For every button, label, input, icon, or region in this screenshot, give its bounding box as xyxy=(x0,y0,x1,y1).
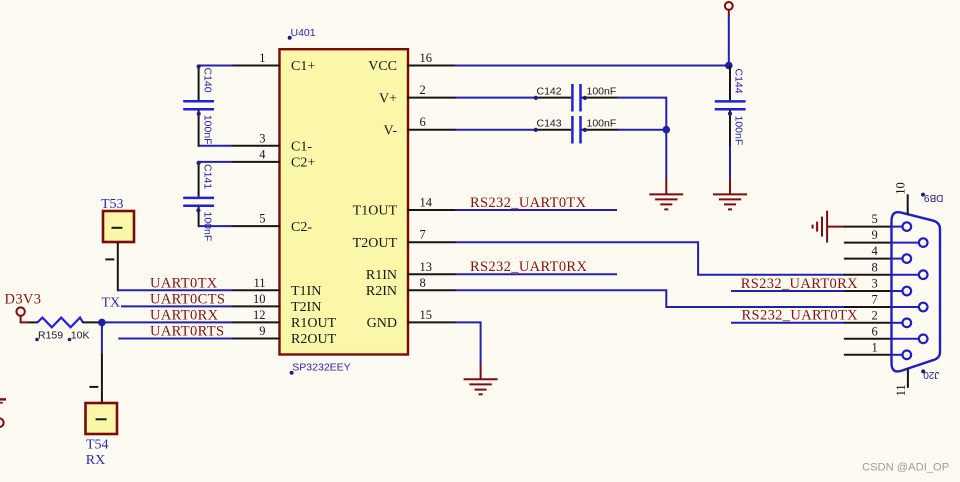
svg-text:C142: C142 xyxy=(537,86,562,98)
svg-text:1: 1 xyxy=(259,51,265,65)
pin 3 stub xyxy=(232,145,281,147)
net label UART0RTS xyxy=(150,324,224,340)
pin 8 stub xyxy=(407,289,456,291)
testpoint T53 xyxy=(101,197,134,242)
svg-text:6: 6 xyxy=(420,115,426,129)
svg-text:V+: V+ xyxy=(379,91,397,106)
wire R2IN to DB9 pin7 xyxy=(455,290,845,307)
T54 pin wire xyxy=(89,354,102,403)
svg-text:DB9: DB9 xyxy=(924,192,944,203)
svg-text:C1-: C1- xyxy=(291,140,312,155)
svg-text:5: 5 xyxy=(872,212,878,226)
capacitor C140 xyxy=(183,64,214,146)
svg-text:C2-: C2- xyxy=(291,220,312,235)
net label RS232_UART0TX at T1OUT xyxy=(470,195,587,211)
capacitor C144 xyxy=(715,66,746,148)
wire C143 to junction xyxy=(617,129,666,131)
svg-text:R159: R159 xyxy=(38,330,63,342)
net label UART0CTS xyxy=(150,291,225,307)
svg-text:100nF: 100nF xyxy=(733,116,745,146)
wire T1OUT pin14 xyxy=(455,209,617,211)
svg-text:T1IN: T1IN xyxy=(291,284,321,299)
svg-text:4: 4 xyxy=(872,244,879,258)
earth ground at DB9 pin5 xyxy=(813,211,845,243)
svg-text:R1IN: R1IN xyxy=(366,268,397,283)
svg-text:VCC: VCC xyxy=(368,59,397,74)
svg-text:V-: V- xyxy=(384,123,398,138)
svg-text:5: 5 xyxy=(259,212,265,226)
testpoint T54 xyxy=(86,403,118,468)
svg-text:100nF: 100nF xyxy=(587,86,617,98)
svg-text:12: 12 xyxy=(253,308,266,322)
wire T2OUT to DB9 pin8 xyxy=(455,242,845,275)
label TX xyxy=(102,296,121,311)
svg-text:GND: GND xyxy=(367,316,397,331)
svg-text:R1OUT: R1OUT xyxy=(291,316,337,331)
svg-text:11: 11 xyxy=(894,384,908,396)
watermark xyxy=(862,461,949,473)
svg-text:14: 14 xyxy=(420,196,433,210)
svg-text:UART0RX: UART0RX xyxy=(150,307,219,323)
svg-text:C2+: C2+ xyxy=(291,156,315,171)
pin 16 stub xyxy=(407,65,456,67)
svg-text:100nF: 100nF xyxy=(201,115,213,145)
pin numbers right xyxy=(420,51,433,322)
DB9 pin numbers xyxy=(872,212,879,354)
svg-text:J20: J20 xyxy=(923,369,940,380)
wire R2OUT pin9 xyxy=(118,338,232,340)
svg-text:UART0CTS: UART0CTS xyxy=(150,291,225,307)
wire R1IN pin13 xyxy=(455,273,617,275)
svg-text:7: 7 xyxy=(872,293,878,307)
svg-text:7: 7 xyxy=(420,228,426,242)
svg-text:C1+: C1+ xyxy=(291,59,315,74)
svg-text:T54: T54 xyxy=(86,438,109,453)
wire T2IN pin10 xyxy=(121,305,233,307)
pin names left xyxy=(291,59,337,347)
net label UART0RX xyxy=(150,307,219,323)
svg-text:9: 9 xyxy=(872,228,878,242)
svg-text:RS232_UART0TX: RS232_UART0TX xyxy=(742,308,859,324)
pin 14 stub xyxy=(407,209,456,211)
svg-text:C141: C141 xyxy=(201,164,213,189)
svg-text:UART0TX: UART0TX xyxy=(150,275,218,291)
svg-text:10K: 10K xyxy=(71,330,90,342)
svg-text:8: 8 xyxy=(872,260,878,274)
wire VCC pin16 to C144 junction xyxy=(455,65,729,67)
svg-text:R2IN: R2IN xyxy=(366,284,397,299)
net label RS232_UART0RX at R1IN xyxy=(470,259,587,275)
junction C142 C143 xyxy=(663,126,671,134)
svg-text:13: 13 xyxy=(420,260,433,274)
svg-text:2: 2 xyxy=(872,308,878,322)
DB9 pin circles right column xyxy=(892,238,928,343)
value DB9 mirrored xyxy=(921,192,943,203)
svg-text:10: 10 xyxy=(894,182,908,195)
wire C142 to corner down xyxy=(617,98,666,129)
svg-text:RS232_UART0RX: RS232_UART0RX xyxy=(470,259,587,275)
pin 6 stub xyxy=(407,129,456,131)
pin 2 stub xyxy=(407,97,456,99)
ground under C142 C143 xyxy=(649,179,683,210)
DB9 pin circles left column xyxy=(892,222,911,359)
ground at GND pin xyxy=(464,363,498,394)
pin 13 stub xyxy=(407,273,456,275)
DB9 pin stubs black xyxy=(844,227,892,355)
pin 5 stub xyxy=(232,225,281,227)
T53 pin wire down xyxy=(105,243,118,292)
svg-text:RS232_UART0RX: RS232_UART0RX xyxy=(741,276,858,292)
svg-text:100nF: 100nF xyxy=(587,118,617,130)
left edge fragment wire stub xyxy=(0,399,6,402)
wire C140 to pin3 xyxy=(199,145,233,147)
wire pin1 to C140 xyxy=(199,65,233,67)
DB9 pin 11 stub xyxy=(894,369,908,397)
svg-text:T53: T53 xyxy=(101,197,124,212)
net label RS232_UART0RX at DB9 pin3 xyxy=(741,276,858,292)
connector J20 DB9 body xyxy=(892,212,941,371)
wire R1OUT pin12 xyxy=(102,321,233,323)
svg-text:C144: C144 xyxy=(733,69,745,94)
net label UART0TX xyxy=(150,275,218,291)
value SP3232EEY xyxy=(290,362,351,375)
capacitor C141 xyxy=(183,161,214,241)
pin 12 stub xyxy=(232,321,281,323)
svg-text:3: 3 xyxy=(259,131,265,145)
svg-text:C143: C143 xyxy=(537,118,562,130)
IC U401 body xyxy=(280,49,409,354)
svg-text:TX: TX xyxy=(102,296,121,311)
pin names right xyxy=(353,59,398,331)
capacitor C142 xyxy=(534,84,618,112)
power port D3V3a circle top xyxy=(725,2,733,17)
capacitor C143 xyxy=(534,116,618,144)
wire pin6 to C143 xyxy=(455,129,537,131)
designator U401 xyxy=(288,27,316,40)
svg-text:4: 4 xyxy=(259,147,266,161)
svg-text:16: 16 xyxy=(420,51,433,65)
pin 1 stub xyxy=(232,65,281,67)
svg-text:11: 11 xyxy=(253,276,265,290)
svg-text:10: 10 xyxy=(253,292,266,306)
svg-text:15: 15 xyxy=(420,308,433,322)
svg-text:T1OUT: T1OUT xyxy=(353,204,398,219)
svg-text:C140: C140 xyxy=(201,68,213,93)
wire C141 to pin5 xyxy=(199,225,233,227)
svg-text:8: 8 xyxy=(420,276,426,290)
DB9 pin 10 stub xyxy=(894,182,908,214)
junction R159 T54 pin12 xyxy=(98,319,106,327)
svg-text:1: 1 xyxy=(872,340,878,354)
svg-text:RX: RX xyxy=(86,453,105,468)
svg-text:UART0RTS: UART0RTS xyxy=(150,324,224,340)
svg-text:U401: U401 xyxy=(291,27,316,39)
designator J20 mirrored xyxy=(921,369,939,380)
pin 15 stub xyxy=(407,321,456,323)
pin 11 stub xyxy=(232,289,281,291)
wire junction to ground xyxy=(665,130,667,179)
wire to DB9 pin2 xyxy=(731,322,845,324)
pin numbers left xyxy=(253,51,266,338)
svg-text:2: 2 xyxy=(420,83,426,97)
svg-text:D3V3: D3V3 xyxy=(5,292,42,308)
svg-text:R2OUT: R2OUT xyxy=(291,332,337,347)
svg-text:3: 3 xyxy=(872,277,878,291)
wire power to VCC junction xyxy=(728,16,730,66)
svg-text:CSDN @ADI_OP: CSDN @ADI_OP xyxy=(862,461,949,473)
wire GND pin15 to ground xyxy=(455,322,481,364)
wire pin2 to C142 xyxy=(455,97,537,99)
svg-text:T2OUT: T2OUT xyxy=(353,236,398,251)
ground under C144 xyxy=(713,179,747,210)
resistor R159 xyxy=(29,318,102,342)
power port D3V3 xyxy=(5,292,42,323)
pin 9 stub xyxy=(232,338,281,340)
svg-text:T2IN: T2IN xyxy=(291,300,321,315)
wire T1IN pin11 xyxy=(118,289,233,291)
svg-text:9: 9 xyxy=(259,324,265,338)
pin 10 stub xyxy=(232,305,281,307)
junction VCC C144 xyxy=(725,62,733,70)
svg-text:RS232_UART0TX: RS232_UART0TX xyxy=(470,195,587,211)
left edge fragment power port circle xyxy=(0,418,4,427)
wire C144 to ground xyxy=(729,146,731,179)
pin 4 stub xyxy=(232,161,281,163)
svg-text:6: 6 xyxy=(872,324,878,338)
wire pin4 to C141 xyxy=(199,161,233,163)
wire junction down to T54 xyxy=(101,322,103,354)
svg-text:SP3232EEY: SP3232EEY xyxy=(292,362,350,374)
wire to DB9 pin3 xyxy=(731,290,845,292)
pin 7 stub xyxy=(407,241,456,243)
net label RS232_UART0TX at DB9 pin2 xyxy=(742,308,859,324)
